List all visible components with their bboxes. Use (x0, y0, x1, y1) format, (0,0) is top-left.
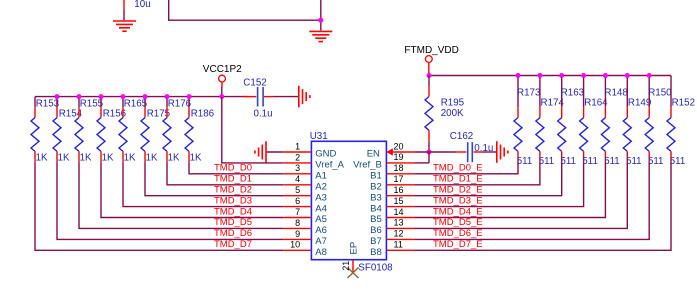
svg-text:R153: R153 (36, 98, 60, 109)
svg-text:TMD_D4_E: TMD_D4_E (433, 206, 483, 217)
svg-text:1K: 1K (190, 153, 202, 164)
svg-text:R165: R165 (124, 98, 148, 109)
svg-text:TMD_D7_E: TMD_D7_E (433, 239, 483, 250)
svg-text:TMD_D1_E: TMD_D1_E (433, 174, 483, 185)
svg-text:TMD_D5_E: TMD_D5_E (433, 217, 483, 228)
svg-text:15: 15 (394, 196, 404, 206)
svg-text:8: 8 (295, 218, 300, 228)
svg-text:511: 511 (561, 156, 576, 167)
svg-text:13: 13 (394, 218, 404, 228)
svg-text:4: 4 (295, 174, 300, 184)
svg-text:FTMD_VDD: FTMD_VDD (404, 45, 458, 56)
svg-text:511: 511 (670, 156, 685, 167)
svg-text:A8: A8 (315, 247, 327, 258)
svg-text:1K: 1K (80, 153, 92, 164)
svg-text:R164: R164 (584, 98, 608, 109)
svg-text:TMD_D3_E: TMD_D3_E (433, 195, 483, 206)
svg-text:11: 11 (394, 240, 403, 250)
svg-text:1K: 1K (102, 153, 114, 164)
svg-text:R195: R195 (441, 97, 465, 108)
svg-text:0.1u: 0.1u (254, 109, 273, 120)
svg-text:B7: B7 (370, 236, 382, 247)
svg-text:A1: A1 (315, 171, 327, 182)
svg-text:20: 20 (394, 141, 404, 151)
svg-text:7: 7 (295, 207, 300, 217)
svg-text:SF0108: SF0108 (358, 262, 393, 273)
svg-text:B2: B2 (370, 182, 382, 193)
svg-text:511: 511 (539, 156, 554, 167)
svg-text:10: 10 (290, 240, 300, 250)
svg-text:2: 2 (295, 152, 300, 162)
svg-text:511: 511 (582, 156, 597, 167)
svg-text:511: 511 (604, 156, 619, 167)
svg-text:R173: R173 (517, 87, 541, 98)
svg-text:A4: A4 (315, 203, 327, 214)
svg-text:Vref_B: Vref_B (353, 160, 382, 171)
svg-text:3: 3 (295, 163, 300, 173)
svg-text:21: 21 (341, 261, 351, 271)
svg-text:17: 17 (394, 174, 404, 184)
svg-text:A5: A5 (315, 214, 327, 225)
svg-text:R148: R148 (604, 87, 628, 98)
svg-text:18: 18 (394, 163, 404, 173)
svg-text:TMD_D6_E: TMD_D6_E (433, 228, 483, 239)
svg-text:TMD_D4: TMD_D4 (214, 206, 252, 217)
svg-text:10u: 10u (134, 0, 150, 10)
svg-text:1K: 1K (124, 153, 136, 164)
svg-text:12: 12 (394, 229, 404, 239)
svg-text:U31: U31 (310, 131, 328, 142)
svg-text:TMD_D3: TMD_D3 (214, 195, 252, 206)
svg-text:C162: C162 (450, 131, 473, 142)
svg-text:5: 5 (295, 185, 300, 195)
svg-text:EP: EP (349, 242, 360, 255)
svg-text:R152: R152 (672, 98, 695, 109)
svg-text:TMD_D5: TMD_D5 (214, 217, 252, 228)
svg-text:B1: B1 (370, 171, 382, 182)
svg-text:TMD_D0_E: TMD_D0_E (433, 163, 483, 174)
svg-text:1: 1 (295, 141, 300, 151)
svg-text:B3: B3 (370, 192, 382, 203)
svg-text:B8: B8 (370, 247, 382, 258)
svg-text:6: 6 (295, 196, 300, 206)
svg-text:R176: R176 (168, 98, 192, 109)
svg-text:1K: 1K (58, 153, 70, 164)
svg-text:A3: A3 (315, 192, 327, 203)
svg-text:A2: A2 (315, 182, 327, 193)
svg-text:Vref_A: Vref_A (315, 160, 344, 171)
svg-text:A7: A7 (315, 236, 327, 247)
svg-text:EN: EN (367, 149, 380, 160)
svg-text:1K: 1K (36, 153, 48, 164)
svg-text:B4: B4 (370, 203, 382, 214)
svg-text:16: 16 (394, 185, 404, 195)
svg-text:511: 511 (517, 156, 532, 167)
svg-text:19: 19 (394, 152, 404, 162)
svg-text:1K: 1K (168, 153, 180, 164)
svg-text:511: 511 (648, 156, 663, 167)
svg-text:511: 511 (626, 156, 641, 167)
svg-text:1K: 1K (146, 153, 158, 164)
svg-text:TMD_D0: TMD_D0 (214, 163, 252, 174)
svg-text:VCC1P2: VCC1P2 (203, 64, 242, 75)
svg-text:R155: R155 (80, 98, 104, 109)
svg-text:9: 9 (295, 229, 300, 239)
svg-text:0.1u: 0.1u (474, 143, 493, 154)
svg-text:R174: R174 (541, 98, 565, 109)
svg-text:R150: R150 (648, 87, 672, 98)
svg-text:B5: B5 (370, 214, 382, 225)
svg-text:R149: R149 (628, 98, 651, 109)
svg-text:TMD_D2: TMD_D2 (214, 185, 252, 196)
svg-text:R186: R186 (191, 108, 215, 119)
svg-text:B6: B6 (370, 225, 382, 236)
svg-text:A6: A6 (315, 225, 327, 236)
svg-text:TMD_D6: TMD_D6 (214, 228, 252, 239)
svg-text:C152: C152 (243, 77, 266, 88)
svg-text:R163: R163 (561, 87, 585, 98)
svg-text:TMD_D2_E: TMD_D2_E (433, 185, 483, 196)
svg-text:200K: 200K (441, 108, 464, 119)
svg-text:TMD_D1: TMD_D1 (214, 174, 252, 185)
svg-text:TMD_D7: TMD_D7 (214, 239, 252, 250)
svg-text:GND: GND (315, 149, 336, 160)
svg-text:14: 14 (394, 207, 404, 217)
